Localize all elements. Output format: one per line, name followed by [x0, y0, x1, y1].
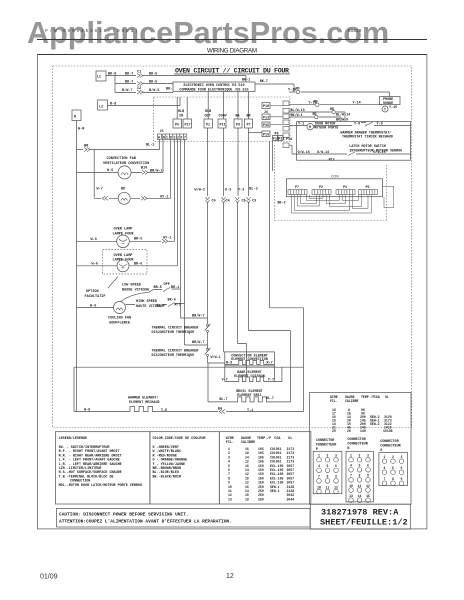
svg-text:T-5: T-5 [161, 409, 167, 413]
svg-text:CALIBRE: CALIBRE [241, 441, 255, 445]
right big box [297, 122, 411, 161]
svg-text:O-3: O-3 [225, 189, 231, 193]
svg-text:BR/W-1: BR/W-1 [150, 169, 163, 174]
svg-text:BR/W-7: BR/W-7 [192, 314, 205, 319]
svg-text:W-N: W-N [78, 128, 84, 132]
header part number text [45, 28, 362, 34]
right tables box [310, 393, 412, 505]
svg-text:Y-3: Y-3 [238, 189, 244, 193]
svg-text:BL/W-16: BL/W-16 [291, 108, 305, 113]
svg-text:L1: L1 [97, 76, 101, 80]
svg-text:RD: RD [313, 113, 317, 117]
svg-text:W-6: W-6 [90, 305, 96, 309]
svg-text:P10: P10 [263, 105, 269, 109]
svg-text:BL-3: BL-3 [249, 188, 257, 192]
CON dashed zone [275, 145, 387, 221]
svg-text:W-6: W-6 [92, 263, 98, 267]
svg-text:8: 8 [359, 474, 361, 478]
svg-text:P8: P8 [275, 133, 279, 137]
svg-text:LEGEND/LEGENDE: LEGEND/LEGENDE [59, 436, 88, 441]
svg-text:O/W-16: O/W-16 [298, 150, 310, 155]
svg-text:Y-14: Y-14 [353, 102, 361, 106]
svg-text:P9: P9 [236, 124, 240, 128]
svg-text:R-9: R-9 [226, 361, 232, 365]
svg-text:FIL.: FIL. [330, 399, 338, 403]
svg-text:ELEMENT RECHAUD: ELEMENT RECHAUD [129, 401, 160, 405]
svg-text:7: 7 [184, 135, 186, 139]
svg-text:RD: RD [296, 88, 300, 92]
CON box [286, 179, 382, 197]
CON right hook wire [382, 186, 393, 207]
wire from pin col to latch [289, 145, 297, 154]
connector C6 [206, 197, 251, 203]
svg-text:B/W-5: B/W-5 [149, 88, 160, 93]
wire from P11 down [224, 128, 225, 352]
svg-text:BK-5: BK-5 [149, 81, 157, 85]
svg-text:2: 2 [359, 454, 361, 458]
wire from P7 down [248, 128, 250, 331]
wire BL/W-16 [289, 112, 345, 122]
svg-text:318271978 REV:A: 318271978 REV:A [321, 508, 399, 518]
svg-text:2: 2 [177, 135, 179, 139]
divider line above warmer [74, 366, 304, 368]
svg-text:8: 8 [392, 477, 394, 481]
oven lamp 2 wire [77, 139, 178, 265]
connector P16 [262, 131, 270, 137]
svg-text:COOLING FAN: COOLING FAN [108, 317, 131, 321]
svg-text:P5: P5 [366, 186, 370, 190]
connector P1 [204, 119, 213, 128]
svg-text:RD: RD [314, 100, 318, 104]
svg-text:WIRING DIAGRAM: WIRING DIAGRAM [207, 48, 257, 55]
svg-text:5: 5 [392, 466, 394, 470]
svg-text:4: 4 [350, 464, 352, 468]
svg-text:3: 3 [335, 454, 337, 458]
connector box P [313, 451, 342, 493]
lower fan motor [118, 192, 130, 204]
wire branch W-7 [93, 150, 95, 199]
svg-text:BK.-BLACK/NOIR: BK.-BLACK/NOIR [153, 474, 182, 479]
terminal L2 [98, 100, 108, 110]
svg-text:OVEN LAMP: OVEN LAMP [114, 254, 133, 258]
svg-text:P17: P17 [185, 124, 191, 128]
svg-text:FACULTATIF: FACULTATIF [85, 295, 106, 299]
svg-text:TEMP./F: TEMP./F [361, 395, 374, 399]
svg-text:3: 3 [367, 454, 369, 458]
svg-text:CONNECTOR: CONNECTOR [347, 438, 366, 442]
svg-text:4: 4 [318, 464, 320, 468]
svg-text:W/W-1: W/W-1 [211, 355, 221, 360]
svg-text:J6: J6 [160, 130, 164, 134]
svg-text:ELEMENT CUISSON: ELEMENT CUISSON [234, 375, 265, 379]
connector P6 [173, 119, 182, 128]
svg-text:LATCH MOTOR SWITCH: LATCH MOTOR SWITCH [349, 145, 386, 149]
svg-text:OVEN LAMP: OVEN LAMP [114, 228, 133, 232]
svg-text:IN: IN [179, 115, 183, 119]
oven lamp 2 dashed option box [103, 250, 148, 275]
latch switch 2 [348, 152, 355, 156]
wire BR branch to J6 [77, 139, 160, 149]
svg-text:O/W-16: O/W-16 [373, 150, 385, 155]
svg-text:B/W-7: B/W-7 [122, 88, 133, 93]
svg-text:BL/W-14: BL/W-14 [336, 112, 350, 117]
svg-text:RLB: RLB [205, 110, 211, 114]
connector C1 [137, 74, 143, 95]
svg-text:10198: 10198 [383, 429, 393, 433]
connector C3 [247, 197, 251, 203]
high speed switch [168, 303, 175, 307]
svg-text:7: 7 [318, 475, 320, 479]
svg-text:11: 11 [358, 484, 362, 488]
wire BK/W-1 [289, 117, 341, 122]
svg-text:3: 3 [401, 455, 403, 459]
header rule bottom [37, 54, 427, 55]
svg-text:CSA: CSA [274, 437, 281, 441]
svg-text:C3: C3 [252, 200, 256, 204]
svg-text:HIGH SPEED: HIGH SPEED [136, 300, 157, 304]
svg-text:BR-1: BR-1 [171, 286, 179, 290]
svg-text:BR-6: BR-6 [134, 238, 142, 242]
svg-text:T-1: T-1 [247, 409, 253, 413]
convection element box [225, 352, 275, 366]
wire Y-16 [289, 92, 390, 97]
svg-text:CONNECTOR: CONNECTOR [316, 439, 335, 443]
svg-text:CONNECTOR: CONNECTOR [380, 440, 399, 444]
wire from P1 down [207, 128, 209, 324]
gauge table rows [228, 447, 294, 501]
svg-text:W-8: W-8 [84, 409, 90, 413]
svg-text:BR/W-7: BR/W-7 [192, 340, 205, 345]
svg-text:BK-7: BK-7 [125, 81, 133, 85]
svg-text:ELEMENT CONVECTION: ELEMENT CONVECTION [231, 358, 268, 362]
svg-text:C4: C4 [226, 200, 230, 204]
svg-text:6: 6 [335, 464, 337, 468]
svg-text:LAMPE FOUR: LAMPE FOUR [113, 259, 135, 263]
gauge table box [219, 432, 311, 504]
broil element symbol and box [208, 331, 291, 402]
svg-text:B10: B10 [141, 167, 147, 171]
svg-text:COLOR CODE/CODE DE COULEUR: COLOR CODE/CODE DE COULEUR [153, 436, 207, 441]
svg-text:BR: BR [247, 115, 252, 119]
svg-text:20: 20 [347, 429, 351, 433]
connector P11 [218, 119, 226, 128]
svg-text:Y-9: Y-9 [354, 122, 360, 126]
low speed wire [121, 139, 208, 318]
svg-text:VENTILATEUR CONVECTION: VENTILATEUR CONVECTION [103, 162, 149, 166]
svg-text:140: 140 [360, 429, 366, 433]
svg-text:12: 12 [334, 485, 338, 489]
svg-text:14: 14 [358, 494, 362, 498]
connector F10 F11 [273, 136, 278, 141]
svg-text:CSA: CSA [374, 395, 380, 399]
svg-text:BK-5: BK-5 [149, 73, 157, 77]
svg-text:BK/W-9: BK/W-9 [336, 117, 348, 122]
rev box [310, 504, 410, 529]
door motor wire [289, 123, 411, 126]
terminal L1 [96, 71, 106, 81]
board right pin column [283, 101, 289, 148]
connector P9 [234, 119, 242, 128]
connector box N [346, 451, 373, 502]
connector P17 [183, 119, 192, 128]
cooling fan motor [114, 302, 126, 314]
convection element symbol [225, 360, 275, 364]
wire row3 [115, 84, 173, 93]
svg-text:BL-1: BL-1 [146, 144, 154, 148]
svg-text:9: 9 [335, 475, 337, 479]
svg-text:SHEET/FEUILLE:1/2: SHEET/FEUILLE:1/2 [320, 518, 408, 528]
svg-text:W-5: W-5 [107, 169, 113, 173]
caution box [57, 509, 311, 528]
svg-text:F11: F11 [279, 138, 285, 142]
svg-text:3044: 3044 [287, 497, 295, 501]
svg-text:N: N [347, 447, 349, 451]
svg-text:UL: UL [288, 437, 292, 441]
svg-text:T: T [384, 109, 386, 113]
svg-text:2: 2 [327, 454, 329, 458]
svg-text:BR-5: BR-5 [154, 286, 162, 290]
connector P15 [262, 122, 270, 127]
svg-text:5: 5 [359, 464, 361, 468]
svg-text:B4: B4 [218, 408, 222, 412]
svg-text:Y-7: Y-7 [268, 378, 274, 382]
convection fan motor [118, 166, 131, 179]
svg-text:CON: CON [331, 175, 339, 179]
svg-text:CONV: CONV [219, 115, 228, 119]
svg-text:W: W [158, 135, 160, 139]
svg-text:9: 9 [367, 474, 369, 478]
oven lamp 1 wire [77, 139, 175, 241]
svg-text:P15: P15 [263, 124, 269, 128]
svg-text:P7: P7 [247, 124, 251, 128]
connector group P3 [336, 190, 355, 195]
svg-text:J6: J6 [264, 111, 268, 115]
svg-text:P3: P3 [343, 186, 347, 190]
low speed switch [163, 288, 170, 292]
connector group P2 [312, 190, 331, 195]
sheet left border [36, 54, 39, 529]
svg-text:10: 10 [317, 485, 321, 489]
long wire bend right [270, 141, 304, 412]
latch wire bottom [297, 153, 411, 155]
wire Y-10 probe [289, 104, 382, 106]
svg-text:N: N [163, 135, 165, 139]
warmer element right wire [156, 411, 304, 413]
convection fan wire [77, 139, 164, 172]
svg-text:P13: P13 [263, 116, 269, 120]
svg-text:BK-1: BK-1 [242, 79, 250, 83]
svg-text:8: 8 [327, 475, 329, 479]
svg-text:CONNECTEUR: CONNECTEUR [380, 445, 401, 449]
sheet bottom border [37, 528, 427, 531]
svg-text:OPTION: OPTION [86, 290, 99, 294]
svg-text:6: 6 [401, 466, 403, 470]
connector pair on lower fan wire [102, 196, 147, 200]
svg-text:OUT: OUT [205, 115, 211, 119]
color code box [150, 432, 219, 504]
lower fan motor wire [94, 139, 171, 198]
svg-text:C1: C1 [137, 71, 141, 75]
svg-text:DISJONCTEUR THERMIQUE: DISJONCTEUR THERMIQUE [152, 331, 195, 335]
svg-text:C5: C5 [242, 200, 246, 204]
svg-text:CONNECTEUR: CONNECTEUR [316, 444, 337, 448]
svg-text:C2: C2 [137, 87, 141, 91]
svg-text:M: M [309, 126, 311, 130]
J6 pin row [157, 134, 187, 139]
svg-text:SEW-1: SEW-1 [270, 489, 280, 493]
svg-text:RLB: RLB [178, 110, 184, 114]
svg-text:BASSE VITESSE: BASSE VITESSE [122, 289, 149, 293]
svg-text:BL-6: BL-6 [157, 305, 165, 309]
svg-text:CONVECTION FAN: CONVECTION FAN [107, 157, 136, 161]
warmer element symbol [127, 407, 156, 412]
thermal circuit breaker 2 [205, 348, 211, 355]
svg-text:P14: P14 [286, 138, 292, 142]
svg-text:W-7: W-7 [97, 188, 103, 192]
header rule top [37, 39, 427, 40]
svg-text:TEMP./F: TEMP./F [257, 436, 271, 441]
svg-text:12: 12 [366, 484, 370, 488]
svg-text:P11: P11 [220, 124, 226, 128]
connector P13 [262, 114, 270, 120]
P box top stubs [177, 92, 248, 120]
svg-text:29: 29 [332, 429, 336, 433]
svg-text:13: 13 [349, 494, 353, 498]
svg-text:GY-1: GY-1 [163, 237, 171, 241]
connector P10 [262, 103, 270, 109]
probe circle [382, 106, 388, 112]
svg-text:250: 250 [258, 497, 264, 501]
connector on fan wire [142, 170, 148, 174]
svg-text:BK-7: BK-7 [125, 73, 133, 77]
svg-text:CAUTION: DISCONNECT POWER BEFO: CAUTION: DISCONNECT POWER BEFORE SERVICI… [59, 512, 189, 518]
svg-text:7: 7 [384, 477, 386, 481]
svg-text:SEW-2: SEW-2 [370, 422, 380, 426]
connector on lamp1 wire [162, 239, 168, 243]
CON interconnect wires [292, 186, 394, 213]
wire row2 [115, 76, 294, 93]
sheet right border [426, 54, 429, 529]
connector box G [379, 453, 408, 486]
svg-text:Y-15: Y-15 [389, 106, 397, 110]
svg-text:BK-7: BK-7 [260, 80, 268, 84]
svg-text:N: N [74, 116, 76, 120]
svg-text:2: 2 [392, 455, 394, 459]
legend box [55, 432, 149, 504]
svg-text:L2: L2 [99, 106, 103, 110]
wire from P9 down [238, 128, 247, 377]
svg-text:11: 11 [326, 485, 330, 489]
wire from P16 joining P7 wire [249, 131, 263, 133]
connector C5 [235, 197, 239, 203]
svg-text:R-8: R-8 [110, 103, 116, 107]
svg-text:GY-1: GY-1 [160, 196, 168, 200]
probe box [380, 97, 401, 105]
svg-text:R-1: R-1 [175, 304, 181, 308]
svg-text:OFF: OFF [164, 283, 170, 287]
svg-text:D: D [170, 135, 172, 139]
svg-text:Y-1: Y-1 [298, 122, 304, 126]
connector C2 [137, 90, 143, 94]
svg-text:THERMOSTAT TIROIR RECHAUD: THERMOSTAT TIROIR RECHAUD [342, 136, 393, 140]
svg-text:LAMPE FOUR: LAMPE FOUR [113, 233, 135, 237]
svg-text:BK/W-1: BK/W-1 [291, 113, 303, 118]
svg-text:01/09: 01/09 [40, 574, 58, 581]
oven circuit outer dashed box [53, 66, 412, 428]
svg-text:C6: C6 [212, 200, 216, 204]
svg-text:CALIBRE: CALIBRE [345, 399, 358, 403]
svg-text:ELEMENT GRIL: ELEMENT GRIL [237, 394, 261, 398]
connector row2 [137, 82, 143, 86]
svg-text:BL-7: BL-7 [266, 397, 274, 401]
wire L2 to board [108, 97, 181, 106]
bake element side wires [225, 366, 275, 382]
svg-text:1: 1 [350, 454, 352, 458]
svg-text:P/N 5995453619 (0901): P/N 5995453619 (0901) [45, 28, 140, 34]
svg-text:12: 12 [226, 573, 234, 580]
svg-text:1: 1 [318, 454, 320, 458]
terminal N [72, 110, 81, 121]
svg-text:BK-8: BK-8 [108, 73, 116, 77]
svg-text:6: 6 [367, 464, 369, 468]
svg-text:FIL.: FIL. [226, 441, 234, 445]
door motor [307, 124, 313, 130]
svg-text:15: 15 [366, 494, 370, 498]
svg-text:13: 13 [228, 497, 232, 501]
svg-text:5: 5 [327, 464, 329, 468]
thermal circuit breaker 1 [205, 324, 211, 331]
svg-text:CONNECTEUR: CONNECTEUR [347, 443, 368, 447]
oven lamp 2 [117, 260, 129, 272]
wire L1 row1 [106, 75, 246, 77]
connector P7 [245, 119, 253, 128]
svg-text:LOW SPEED: LOW SPEED [122, 284, 141, 288]
option arrow [108, 277, 118, 289]
board connector stubs [270, 106, 283, 125]
electronic oven control box [173, 82, 255, 92]
right column of board connectors [262, 103, 283, 141]
svg-text:V-7: V-7 [222, 378, 228, 382]
svg-text:18: 18 [245, 497, 249, 501]
svg-text:SOUFFLERIE: SOUFFLERIE [109, 322, 130, 326]
control board dashed outline [154, 97, 291, 142]
svg-text:BA: BA [236, 115, 241, 119]
svg-text:P7: P7 [295, 186, 299, 190]
svg-text:W-6: W-6 [91, 238, 97, 242]
svg-text:UL: UL [385, 395, 389, 399]
svg-text:B12: B12 [329, 159, 335, 163]
oven lamp 1 [117, 235, 130, 248]
warmer wire connector [219, 410, 225, 414]
wire N bus [76, 121, 78, 412]
svg-text:L: L [167, 135, 169, 139]
svg-text:RD: RD [330, 108, 334, 112]
connector C4 [222, 197, 226, 203]
svg-text:10: 10 [349, 484, 353, 488]
svg-text:MOTEUR PORTE: MOTEUR PORTE [314, 127, 338, 131]
cooling fan supply wire [77, 307, 114, 309]
svg-text:P6: P6 [175, 124, 179, 128]
svg-text:BR-6: BR-6 [134, 263, 142, 267]
svg-text:9: 9 [401, 477, 403, 481]
connector group P5 [359, 190, 378, 195]
high speed wire [126, 139, 208, 345]
svg-text:R-7: R-7 [267, 361, 273, 365]
svg-text:RD: RD [121, 188, 125, 192]
svg-text:3: 3 [174, 135, 176, 139]
connector group P7 [288, 190, 307, 195]
svg-text:DISJONCTEUR THERMIQUE: DISJONCTEUR THERMIQUE [152, 354, 195, 358]
